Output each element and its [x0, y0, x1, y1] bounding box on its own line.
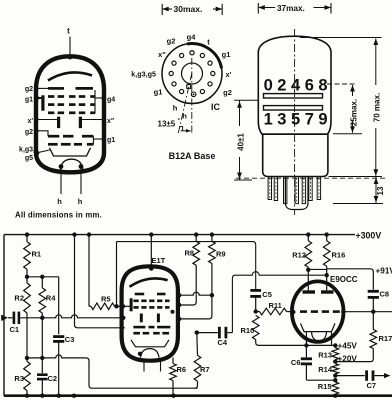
- svg-text:h: h: [57, 197, 62, 206]
- svg-text:5: 5: [291, 110, 300, 128]
- svg-text:g2: g2: [25, 129, 33, 136]
- svg-text:x': x': [27, 118, 33, 125]
- svg-text:IC: IC: [211, 102, 221, 112]
- svg-text:9: 9: [318, 110, 327, 128]
- svg-text:R4: R4: [46, 293, 56, 302]
- svg-text:R14: R14: [318, 365, 333, 374]
- svg-text:R16: R16: [332, 251, 346, 260]
- svg-text:h: h: [173, 104, 178, 113]
- svg-text:g2: g2: [167, 37, 176, 46]
- svg-text:R1: R1: [32, 250, 42, 259]
- svg-text:4: 4: [291, 76, 301, 94]
- svg-text:x": x": [158, 50, 166, 59]
- svg-text:k,g3,g5: k,g3,g5: [131, 70, 156, 79]
- svg-text:+91V: +91V: [376, 266, 392, 275]
- svg-text:g1: g1: [25, 97, 33, 104]
- svg-text:g5: g5: [25, 155, 33, 162]
- svg-text:13±5: 13±5: [158, 119, 176, 128]
- svg-text:h: h: [182, 112, 187, 121]
- svg-text:g4: g4: [187, 33, 197, 42]
- svg-text:R17: R17: [379, 334, 392, 343]
- svg-text:0: 0: [264, 76, 273, 94]
- svg-text:37max.: 37max.: [277, 4, 305, 13]
- svg-text:B12A Base: B12A Base: [169, 151, 216, 161]
- svg-text:C4: C4: [218, 338, 228, 347]
- svg-text:g4: g4: [107, 97, 115, 104]
- svg-text:R6: R6: [177, 365, 187, 374]
- svg-text:C2: C2: [48, 374, 58, 383]
- svg-text:R9: R9: [216, 250, 226, 259]
- svg-text:2: 2: [277, 76, 286, 94]
- svg-text:40±1: 40±1: [236, 133, 245, 151]
- svg-text:g2: g2: [25, 86, 33, 93]
- svg-text:E1T: E1T: [152, 256, 166, 265]
- svg-text:C6: C6: [291, 358, 301, 367]
- svg-text:C3: C3: [65, 335, 75, 344]
- svg-text:7: 7: [305, 110, 314, 128]
- svg-text:E9OCC: E9OCC: [330, 275, 358, 284]
- svg-text:R8: R8: [185, 249, 195, 258]
- svg-text:R5: R5: [101, 295, 111, 304]
- svg-text:1: 1: [264, 110, 273, 128]
- svg-text:C7: C7: [367, 381, 377, 390]
- svg-text:All dimensions in mm.: All dimensions in mm.: [15, 210, 102, 219]
- svg-text:30max.: 30max.: [174, 4, 203, 14]
- svg-text:C5: C5: [262, 290, 272, 299]
- svg-text:R2: R2: [14, 293, 24, 302]
- svg-text:70 max.: 70 max.: [372, 93, 381, 122]
- svg-text:C8: C8: [380, 290, 390, 299]
- svg-text:6: 6: [305, 76, 314, 94]
- svg-text:R3: R3: [14, 374, 24, 383]
- svg-text:t: t: [67, 27, 70, 36]
- svg-text:g1: g1: [222, 50, 231, 59]
- svg-text:R15: R15: [318, 382, 332, 391]
- svg-text:+45V: +45V: [338, 341, 358, 350]
- svg-text:g1: g1: [154, 88, 163, 97]
- svg-text:+20V: +20V: [338, 354, 358, 363]
- svg-text:8: 8: [318, 76, 327, 94]
- svg-text:C1: C1: [10, 325, 20, 334]
- svg-text:13: 13: [376, 186, 385, 195]
- svg-text:x': x': [226, 70, 232, 79]
- svg-text:h: h: [78, 197, 83, 206]
- svg-text:R7: R7: [200, 365, 210, 374]
- svg-text:R11: R11: [269, 301, 282, 310]
- svg-text:k,g3,: k,g3,: [19, 147, 35, 154]
- svg-text:x": x": [107, 118, 114, 125]
- svg-text:g1: g1: [107, 137, 115, 144]
- svg-text:3: 3: [277, 110, 286, 128]
- svg-text:R12: R12: [292, 250, 306, 259]
- svg-text:25max.: 25max.: [349, 99, 358, 126]
- svg-text:R13: R13: [318, 350, 332, 359]
- svg-text:+300V: +300V: [356, 230, 382, 240]
- svg-text:R10: R10: [241, 326, 255, 335]
- svg-text:g2: g2: [223, 88, 232, 97]
